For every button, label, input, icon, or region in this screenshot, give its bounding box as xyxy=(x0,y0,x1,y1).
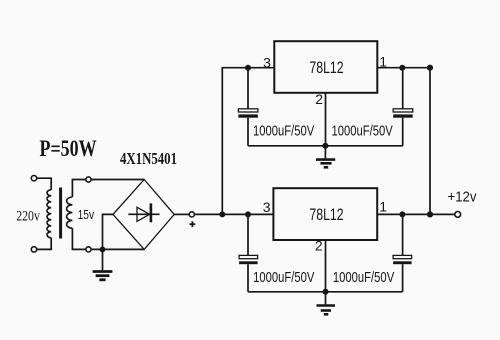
svg-text:4X1N5401: 4X1N5401 xyxy=(120,149,177,168)
label + xyxy=(190,221,196,227)
bridge rectifier 4X1N5401 xyxy=(113,180,174,250)
wire xyxy=(37,178,51,190)
output terminal xyxy=(455,212,461,218)
regulator U2 78L12 xyxy=(273,188,377,240)
junction xyxy=(322,143,328,149)
ground xyxy=(93,249,113,279)
wire xyxy=(91,179,144,181)
transformer T1 core xyxy=(59,188,62,239)
transformer T1 secondary terminal top xyxy=(86,177,91,182)
bridge output terminal + xyxy=(189,212,194,217)
transformer T1 primary terminal top xyxy=(31,176,36,181)
svg-text:1000uF/50V: 1000uF/50V xyxy=(333,270,394,286)
wire xyxy=(91,248,144,250)
junction xyxy=(100,247,106,253)
ground xyxy=(317,292,336,315)
transformer T1 primary winding xyxy=(47,190,51,238)
transformer T1 primary terminal bottom xyxy=(31,247,36,252)
wire xyxy=(174,213,189,215)
svg-text:15v: 15v xyxy=(78,207,95,222)
wire xyxy=(103,214,114,249)
capacitor C4 xyxy=(393,214,412,291)
svg-text:1: 1 xyxy=(379,199,387,215)
junction xyxy=(399,65,405,71)
svg-text:1000uF/50V: 1000uF/50V xyxy=(332,123,393,139)
svg-text:+12v: +12v xyxy=(448,189,477,206)
svg-text:2: 2 xyxy=(315,91,323,107)
wire xyxy=(325,240,327,292)
capacitor C3 xyxy=(239,214,258,291)
wire xyxy=(72,228,86,249)
wire xyxy=(377,67,430,69)
svg-text:220v: 220v xyxy=(16,208,40,224)
wire xyxy=(325,93,327,146)
wire xyxy=(72,180,86,198)
svg-text:78L12: 78L12 xyxy=(309,58,343,77)
junction xyxy=(245,211,251,217)
svg-text:78L12: 78L12 xyxy=(309,205,343,224)
capacitor C1 xyxy=(238,68,258,146)
transformer T1 secondary terminal bottom xyxy=(86,247,91,252)
svg-text:2: 2 xyxy=(315,237,323,253)
svg-text:3: 3 xyxy=(263,199,271,215)
junction xyxy=(427,211,433,217)
wire xyxy=(194,213,273,215)
svg-text:1000uF/50V: 1000uF/50V xyxy=(253,123,314,139)
wire xyxy=(248,145,403,147)
junction xyxy=(219,211,225,217)
junction xyxy=(323,289,329,295)
wire xyxy=(429,68,431,215)
wire xyxy=(248,291,403,293)
wire xyxy=(222,68,274,215)
transformer T1 secondary winding xyxy=(67,197,73,228)
diode xyxy=(128,203,159,222)
junction xyxy=(245,65,251,71)
ground xyxy=(316,146,335,168)
svg-text:3: 3 xyxy=(263,55,271,71)
regulator U1 78L12 xyxy=(274,41,377,93)
svg-text:1000uF/50V: 1000uF/50V xyxy=(253,270,314,286)
capacitor C2 xyxy=(393,68,413,146)
junction xyxy=(399,211,405,217)
junction xyxy=(427,65,433,71)
wire xyxy=(37,238,51,250)
wire xyxy=(377,213,455,215)
svg-text:P=50W: P=50W xyxy=(40,136,97,161)
